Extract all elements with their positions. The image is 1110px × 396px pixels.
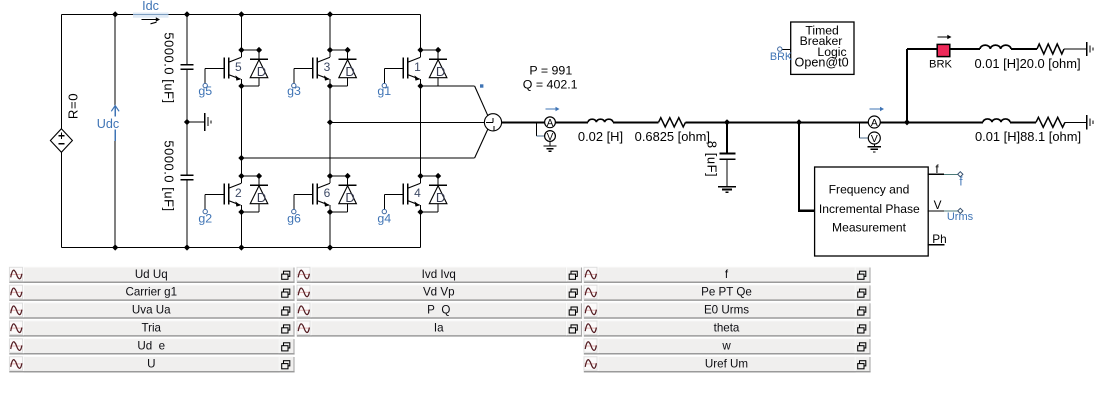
svg-text:Vd Vp: Vd Vp	[423, 286, 455, 299]
wire: leg2 bottom vertical	[329, 212, 331, 248]
svg-text:Ph: Ph	[932, 232, 946, 246]
svg-text:Pe PT Qe: Pe PT Qe	[701, 286, 752, 299]
svg-text:g2: g2	[198, 212, 212, 226]
svg-text:Uref Um: Uref Um	[705, 357, 748, 370]
junction dot leg 4 emitter	[417, 209, 423, 215]
graph row "Ud Uq"	[9, 267, 295, 283]
junction dot diode D2 cathode	[256, 173, 262, 179]
wire: leg2 top vertical	[329, 14, 331, 50]
phase B wire (middle) to combiner	[330, 121, 484, 123]
wire: source left vertical upper	[60, 14, 62, 128]
top branch ground	[1086, 42, 1088, 56]
svg-text:D: D	[436, 190, 445, 205]
gate connector g5	[203, 83, 207, 87]
IGBT Q2 with diode leg	[205, 176, 259, 212]
resistor R1 0.6825 ohm	[659, 118, 686, 127]
svg-text:8 [uF]: 8 [uF]	[705, 141, 720, 177]
svg-text:Ia: Ia	[434, 322, 444, 335]
IGBT Q1 with diode leg	[384, 50, 438, 86]
svg-text:Urms: Urms	[947, 211, 974, 223]
capacitor C2 5000.0uF bottom plates	[181, 174, 194, 176]
svg-text:w: w	[721, 339, 731, 352]
junction dot leg 6 collector rail	[327, 173, 333, 179]
svg-text:Open@t0: Open@t0	[795, 55, 849, 69]
svg-text:0.02 [H]: 0.02 [H]	[578, 129, 623, 144]
wire: A2 out	[880, 121, 983, 123]
svg-text:P Q: P Q	[427, 304, 450, 317]
wire: L3 to R3	[1010, 121, 1036, 123]
wire: DC top rail	[61, 13, 420, 15]
diode D5	[241, 50, 268, 86]
svg-text:V: V	[547, 132, 554, 143]
IGBT Q3 with diode leg	[294, 50, 348, 86]
wire: branch top to breaker	[907, 48, 937, 50]
svg-text:R=0: R=0	[66, 93, 81, 119]
Timed Breaker Logic box	[791, 22, 854, 74]
svg-text:6: 6	[324, 186, 331, 200]
graph row "Ivd Ivq"	[297, 267, 583, 283]
svg-text:D: D	[257, 190, 266, 205]
svg-text:g5: g5	[198, 84, 212, 98]
gate connector g2	[203, 209, 207, 213]
junction dot leg 3 emitter	[327, 83, 333, 89]
wire: branch vertical up	[906, 49, 908, 122]
graph row "Uva Ua"	[9, 302, 295, 318]
junction dot diode D1 cathode	[435, 47, 441, 53]
graph row "Pe PT Qe"	[584, 284, 871, 300]
gate connector g6	[292, 209, 296, 213]
bottom branch ground	[1086, 115, 1088, 129]
junction dot leg 6 emitter	[327, 209, 333, 215]
voltmeter V2 tap wires	[859, 122, 861, 138]
Idc current arrow	[142, 19, 159, 21]
junction dot leg 2 collector rail	[238, 173, 244, 179]
junction dot leg 3 collector rail	[327, 47, 333, 53]
diode D6	[330, 176, 357, 212]
svg-text:g6: g6	[287, 212, 301, 226]
graph row "Uref Um"	[584, 356, 871, 372]
node dots top rail legs	[238, 11, 244, 17]
junction dot diode D6 cathode	[345, 173, 351, 179]
junction dot diode D4 cathode	[435, 173, 441, 179]
graph row "Ia"	[297, 320, 583, 336]
IGBT Q4 with diode leg	[384, 176, 438, 212]
svg-text:3: 3	[324, 60, 331, 74]
capacitor C1 5000.0uF top plates	[181, 64, 194, 66]
svg-text:Measurement: Measurement	[832, 220, 907, 234]
svg-text:5000.0 [uF]: 5000.0 [uF]	[162, 140, 177, 211]
ammeter A2	[868, 116, 880, 128]
graph row "Ud e"	[9, 338, 295, 354]
svg-text:4: 4	[414, 186, 421, 200]
svg-text:A: A	[547, 118, 554, 129]
wire: breaker to L2	[950, 48, 980, 50]
diode D2	[241, 176, 268, 212]
junction dot diode D3 cathode	[345, 47, 351, 53]
svg-text:Tria: Tria	[141, 322, 161, 335]
svg-text:Q = 402.1: Q = 402.1	[523, 78, 578, 92]
node dot measurement tap	[796, 119, 802, 125]
resistor R2 20 ohm	[1037, 44, 1064, 54]
svg-text:Idc: Idc	[142, 0, 159, 13]
svg-text:g1: g1	[377, 84, 391, 98]
wire to top ground	[1064, 48, 1086, 50]
svg-text:P = 991: P = 991	[529, 63, 572, 77]
svg-text:D: D	[436, 64, 445, 79]
wire: L2 to R2	[1011, 48, 1037, 50]
svg-text:Udc: Udc	[97, 117, 119, 131]
svg-text:Carrier g1: Carrier g1	[125, 286, 177, 299]
graph row "Vd Vp"	[297, 284, 583, 300]
3-phase combiner node circle	[484, 114, 501, 131]
IGBT Q6 with diode leg	[294, 176, 348, 212]
gate connector g1	[382, 83, 386, 87]
wire: converter output to ammeter	[502, 121, 545, 123]
svg-text:Incremental Phase: Incremental Phase	[819, 202, 920, 216]
filter capacitor ground	[718, 186, 736, 188]
blue anchor square	[480, 84, 483, 87]
phase A wire (top) to combiner	[421, 85, 475, 87]
ammeter A1 direction arrow	[546, 108, 558, 110]
graph row "P Q"	[297, 302, 583, 318]
svg-text:Frequency and: Frequency and	[829, 183, 910, 197]
wire: leg3 mid vertical	[420, 86, 422, 176]
svg-text:V: V	[934, 198, 942, 212]
wire: tap down to measurement box	[798, 122, 800, 210]
graph row "w"	[584, 338, 871, 354]
gate connector g4	[382, 209, 386, 213]
wire: leg2 mid vertical	[329, 86, 331, 176]
svg-text:U: U	[147, 357, 155, 370]
voltmeter V1 ground	[549, 141, 551, 145]
wire to bottom ground	[1065, 121, 1086, 123]
wire: A1 to inductor	[555, 121, 588, 123]
node dots on rails for Udc wire	[112, 11, 118, 17]
breaker arrow	[938, 36, 950, 38]
junction dot leg 1 collector rail	[417, 47, 423, 53]
svg-text:E0 Urms: E0 Urms	[704, 304, 749, 317]
graph row "U"	[9, 356, 295, 372]
junction dot leg 2 emitter	[238, 209, 244, 215]
breaker BRK red square	[937, 44, 950, 56]
svg-text:BRK: BRK	[929, 59, 953, 71]
graph row "theta"	[584, 320, 871, 336]
wire: leg1 mid vertical	[240, 86, 242, 176]
resistor R3 88.1 ohm	[1036, 117, 1065, 127]
svg-text:1: 1	[414, 60, 421, 74]
inductor L2 0.01H top branch	[980, 45, 1011, 49]
gate connector g3	[292, 83, 296, 87]
junction dot leg 4 collector rail	[417, 173, 423, 179]
BRK output connector	[782, 49, 791, 51]
wire: R1 to second ammeter	[686, 121, 869, 123]
svg-text:2: 2	[235, 186, 242, 200]
voltage source E1 (diamond)	[50, 129, 72, 153]
svg-text:0.01 [H]20.0 [ohm]: 0.01 [H]20.0 [ohm]	[974, 56, 1080, 71]
Frequency and Incremental Phase Measurement box	[815, 167, 929, 256]
junction dot leg 5 emitter	[238, 83, 244, 89]
wire: DC bottom rail	[61, 247, 420, 249]
inductor L1 0.02H	[588, 119, 613, 122]
filter capacitor branch	[726, 123, 728, 153]
phase junction dots	[327, 119, 333, 125]
node dots bottom rail legs	[238, 244, 244, 250]
wire: leg1 top vertical	[240, 14, 242, 50]
node dots capacitor branch	[184, 11, 190, 17]
svg-text:V: V	[871, 134, 878, 145]
wire: capacitor branch vertical	[186, 14, 188, 64]
diode D3	[330, 50, 357, 86]
wire: Udc measurement vertical	[114, 14, 116, 247]
wire: leg3 top vertical	[420, 14, 422, 50]
wire: leg3 bottom vertical	[420, 212, 422, 248]
junction dot leg 5 collector rail	[238, 47, 244, 53]
svg-text:D: D	[345, 64, 354, 79]
svg-text:D: D	[345, 190, 354, 205]
svg-text:BRK: BRK	[770, 51, 793, 63]
IGBT Q5 with diode leg	[205, 50, 259, 86]
svg-text:Ud Uq: Ud Uq	[135, 268, 168, 281]
ammeter A2 direction arrow	[870, 108, 883, 110]
midpoint ground	[187, 121, 205, 123]
svg-text:5: 5	[235, 60, 242, 74]
voltmeter V2 ground	[873, 144, 875, 146]
wire: L1 to R1	[613, 121, 659, 123]
svg-text:5000.0 [uF]: 5000.0 [uF]	[162, 32, 177, 103]
wire: source left vertical lower	[60, 152, 62, 247]
voltmeter V1 tap wires	[536, 122, 538, 136]
graph row "Carrier g1"	[9, 284, 295, 300]
graph row "Tria"	[9, 320, 295, 336]
node dot branch split	[904, 119, 910, 125]
wire: leg1 bottom vertical	[240, 212, 242, 248]
node dot filter cap	[724, 119, 730, 125]
svg-text:Ud e: Ud e	[137, 339, 165, 352]
voltmeter V2	[868, 132, 880, 144]
svg-text:theta: theta	[714, 322, 740, 335]
svg-text:g3: g3	[287, 84, 301, 98]
junction dot leg 1 emitter	[417, 83, 423, 89]
diode D4	[421, 176, 448, 212]
graph row "f"	[584, 267, 871, 283]
svg-text:A: A	[871, 118, 878, 129]
diode D1	[421, 50, 448, 86]
svg-text:Uva Ua: Uva Ua	[132, 304, 171, 317]
svg-text:g4: g4	[377, 212, 391, 226]
Idc labelled wire segment highlight	[133, 13, 169, 18]
svg-text:0.01 [H]88.1 [ohm]: 0.01 [H]88.1 [ohm]	[975, 129, 1081, 144]
ammeter A1	[545, 117, 556, 128]
svg-text:D: D	[257, 64, 266, 79]
svg-text:0.6825 [ohm]: 0.6825 [ohm]	[635, 129, 710, 144]
phase C wire (bottom) to combiner	[241, 157, 474, 159]
voltmeter V1	[545, 131, 556, 142]
inductor L3 0.01H bottom branch	[983, 119, 1010, 122]
graph row "E0 Urms"	[584, 302, 871, 318]
junction dot diode D5 cathode	[256, 47, 262, 53]
svg-text:Ivd Ivq: Ivd Ivq	[422, 268, 456, 281]
Udc voltmeter arrow and label	[97, 117, 123, 131]
